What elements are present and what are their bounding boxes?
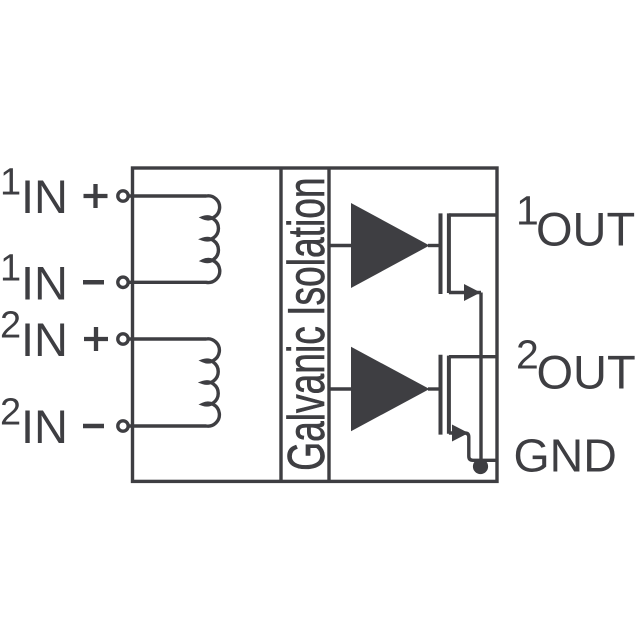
svg-text:1: 1: [0, 161, 21, 203]
wire barrier to buffer A1 input: [329, 244, 352, 247]
transistor Q1 gate bar: [439, 213, 443, 294]
pin 1IN+ terminal circle: [118, 191, 128, 201]
svg-text:IN: IN: [21, 400, 68, 453]
pin 1IN- terminal circle: [118, 277, 128, 287]
junction dot GND node: [473, 459, 488, 474]
wire barrier to buffer A2 input: [329, 387, 352, 390]
arrow Q2 source: [452, 425, 469, 442]
galvanic isolation barrier right line: [327, 168, 330, 481]
svg-text:2: 2: [516, 332, 539, 378]
transistor Q2 gate bar: [439, 355, 443, 435]
plus sign 1IN+: [84, 184, 108, 208]
svg-text:Galvanic Isolation: Galvanic Isolation: [277, 177, 336, 470]
transformer winding L1 (channel 1 input coil with leads): [129, 196, 220, 283]
wire Q2 drain to 2OUT pin: [449, 355, 497, 358]
wire A1 output to Q1 gate: [428, 244, 441, 247]
wire A2 output to Q2 gate: [428, 387, 441, 390]
svg-text:2: 2: [0, 304, 21, 346]
galvanic isolation barrier left line: [279, 168, 282, 481]
wire Q1 drain to 1OUT pin: [449, 213, 497, 216]
svg-text:OUT: OUT: [537, 346, 636, 399]
transistor Q2 channel bar: [447, 356, 451, 434]
svg-text:IN: IN: [21, 170, 68, 223]
buffer amplifier A2 (channel 2 triangle): [351, 347, 430, 431]
minus sign 2IN-: [83, 424, 104, 429]
minus sign 1IN-: [83, 280, 104, 285]
svg-text:OUT: OUT: [536, 203, 635, 256]
pin 2IN- terminal circle: [118, 421, 128, 431]
transformer winding L2 (channel 2 input coil with leads): [129, 339, 220, 426]
wire Q1 source down to GND node: [479, 293, 482, 467]
arrow Q1 source: [464, 284, 481, 301]
pin 2IN+ terminal circle: [118, 334, 128, 344]
svg-text:IN: IN: [21, 257, 68, 310]
svg-text:1: 1: [0, 248, 21, 290]
svg-text:GND: GND: [514, 429, 617, 481]
IC body box U1: [133, 168, 498, 481]
wire Q2 source corner down to GND rail: [449, 433, 497, 460]
svg-text:2: 2: [0, 391, 21, 433]
transistor Q1 channel bar: [447, 213, 451, 293]
plus sign 2IN+: [84, 327, 108, 351]
wire Q1 source: [449, 291, 481, 294]
svg-text:IN: IN: [21, 313, 68, 366]
buffer amplifier A1 (channel 1 triangle): [351, 203, 430, 288]
